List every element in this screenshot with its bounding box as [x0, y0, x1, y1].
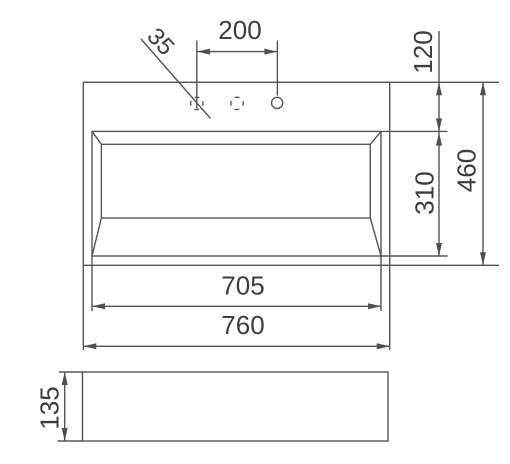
svg-text:705: 705: [221, 271, 264, 301]
svg-text:120: 120: [408, 30, 438, 73]
svg-text:200: 200: [218, 15, 261, 45]
svg-text:310: 310: [410, 171, 440, 214]
svg-text:760: 760: [221, 310, 264, 340]
svg-text:460: 460: [452, 149, 482, 192]
svg-text:135: 135: [35, 386, 65, 429]
svg-text:35: 35: [141, 23, 179, 61]
